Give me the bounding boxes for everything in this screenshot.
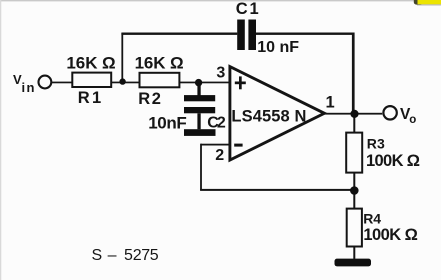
svg-text:in: in bbox=[22, 80, 35, 95]
svg-text:4: 4 bbox=[373, 211, 381, 227]
svg-text:100K Ω: 100K Ω bbox=[366, 152, 420, 170]
svg-text:R: R bbox=[78, 89, 90, 107]
svg-text:1: 1 bbox=[250, 0, 259, 18]
svg-text:10 nF: 10 nF bbox=[257, 39, 299, 56]
svg-text:C: C bbox=[236, 0, 248, 18]
svg-text:R: R bbox=[363, 211, 373, 227]
svg-text:R: R bbox=[138, 90, 150, 108]
svg-text:C2: C2 bbox=[207, 114, 226, 131]
svg-text:2: 2 bbox=[152, 90, 161, 108]
svg-text:LS4558 N: LS4558 N bbox=[231, 107, 306, 125]
svg-text:1: 1 bbox=[326, 94, 335, 112]
svg-text:10nF: 10nF bbox=[148, 114, 187, 133]
svg-text:100K Ω: 100K Ω bbox=[363, 226, 417, 244]
svg-text:o: o bbox=[409, 114, 416, 126]
svg-text:16K Ω: 16K Ω bbox=[135, 53, 184, 72]
svg-text:3: 3 bbox=[216, 65, 225, 82]
svg-text:S–5275: S–5275 bbox=[92, 247, 159, 264]
svg-text:R: R bbox=[367, 136, 377, 152]
svg-text:1: 1 bbox=[92, 89, 101, 107]
svg-text:2: 2 bbox=[215, 147, 224, 164]
svg-text:16K Ω: 16K Ω bbox=[66, 54, 115, 73]
svg-text:3: 3 bbox=[377, 136, 385, 152]
